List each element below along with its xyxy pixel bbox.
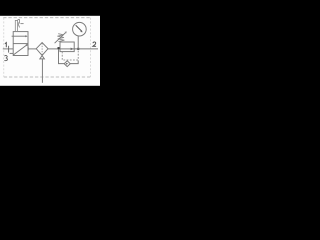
gauge stem wire — [77, 36, 79, 49]
label 3 — [4, 55, 7, 60]
valve V1 body (3/2 on-off valve, two stacked positions) — [13, 32, 28, 56]
enclosure bottom border (dashed) — [4, 76, 91, 78]
pressure gauge G1 — [73, 22, 87, 36]
valve V1 actuator knob — [18, 20, 20, 28]
regulator pilot line (dashed) — [62, 49, 78, 60]
regulator R1 adjustment arrow — [55, 32, 67, 43]
port 1 line — [3, 48, 13, 50]
filter drain line — [41, 59, 43, 83]
wire valve to filter — [28, 48, 36, 50]
filter element (dashed) — [41, 43, 43, 55]
gauge needle — [76, 25, 82, 31]
enclosure top border (dashed) — [3, 17, 90, 19]
valve V1 closed-position diagonal path — [14, 45, 28, 55]
junction node left — [58, 47, 60, 49]
enclosure right border (dashed) — [90, 18, 92, 77]
regulator R1 flow path with arrow — [60, 48, 74, 50]
label 1 — [5, 43, 6, 48]
valve V1 open-position flow path — [12, 35, 27, 37]
output line to port 2 — [74, 48, 98, 50]
enclosure left border (dashed) — [3, 18, 5, 77]
bypass line with check valve — [59, 49, 79, 64]
valve outlet port tick — [27, 47, 29, 51]
regulator R1 body — [60, 42, 74, 52]
check valve CV1 diamond — [64, 61, 70, 67]
label 2 — [93, 42, 96, 46]
valve V1 actuator stem — [15, 20, 17, 31]
port 3 stub — [10, 52, 14, 54]
filter F1 diamond (with water separator) — [36, 43, 48, 56]
regulator R1 spring (zigzag) — [57, 34, 64, 42]
valve V1 detent dash — [20, 23, 23, 25]
port 1 tick — [8, 46, 10, 53]
wire filter to regulator — [48, 48, 60, 50]
filter drain triangle — [40, 56, 45, 59]
junction node right — [77, 48, 79, 50]
